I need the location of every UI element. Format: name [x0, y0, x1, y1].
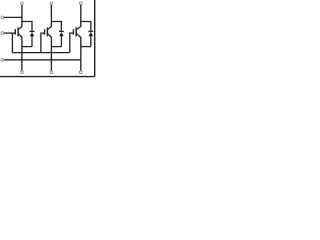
- wire gate 3 feed: [70, 33, 74, 53]
- transistor Q1: [15, 26, 22, 37]
- terminal G (gate circle left): [1, 32, 4, 35]
- wire output node 1: [22, 46, 32, 48]
- wire gate bus feed: [4, 32, 15, 34]
- terminal E2 (bottom circle): [50, 71, 53, 74]
- emitter aux rail R3: [4, 59, 81, 61]
- case border right bus: [94, 0, 96, 77]
- wire gate 2 feed: [41, 33, 45, 53]
- wire C1 aux to collector1: [4, 16, 22, 18]
- wire emitter 1 down: [21, 37, 23, 71]
- terminal E1 (bottom circle): [21, 71, 24, 74]
- transistor Q2: [45, 26, 52, 37]
- wire output node 3: [81, 46, 91, 48]
- case border bottom rail: [0, 76, 95, 78]
- wire collector 3: [80, 5, 82, 27]
- terminal C1 aux (top-left circle): [1, 16, 4, 19]
- terminal E3 (bottom circle): [79, 71, 82, 74]
- transistor Q3: [73, 26, 81, 37]
- terminal C1 (top circle): [21, 2, 24, 5]
- diode D1: [30, 31, 35, 46]
- terminal C3 (top circle): [80, 2, 83, 5]
- diode D2: [59, 31, 64, 46]
- wire gate drop 1: [11, 33, 13, 53]
- node dot collector1/aux: [21, 16, 23, 18]
- terminal C2 (top circle): [50, 2, 53, 5]
- diode D3: [88, 31, 93, 46]
- wire emitter 3 down: [80, 37, 82, 71]
- wire output node 2: [51, 46, 61, 48]
- wire diode2 top branch: [51, 22, 61, 32]
- terminal E aux (bottom-left circle): [1, 58, 4, 61]
- wire collector 2: [50, 5, 52, 27]
- wire diode1 top branch: [22, 22, 32, 32]
- wire collector 1: [21, 5, 23, 27]
- wire emitter 2 down: [50, 37, 52, 71]
- wire diode3 top branch: [81, 22, 91, 32]
- gate bus rail R2: [12, 52, 69, 54]
